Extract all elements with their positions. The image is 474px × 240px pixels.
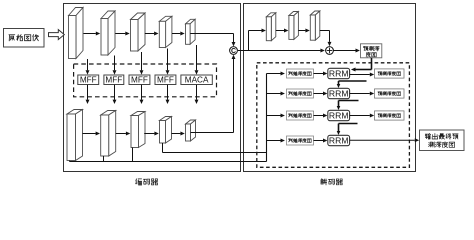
svg-text:C: C [231,48,236,55]
svg-text:MFF: MFF [157,76,174,85]
svg-text:RRM: RRM [329,111,349,121]
svg-text:MACA: MACA [185,76,209,85]
svg-text:MFF: MFF [131,76,148,85]
svg-text:RRM: RRM [329,89,349,99]
svg-text:RRM: RRM [329,136,349,146]
svg-text:MFF: MFF [80,76,97,85]
svg-text:MFF: MFF [105,76,122,85]
svg-text:RRM: RRM [329,69,349,79]
